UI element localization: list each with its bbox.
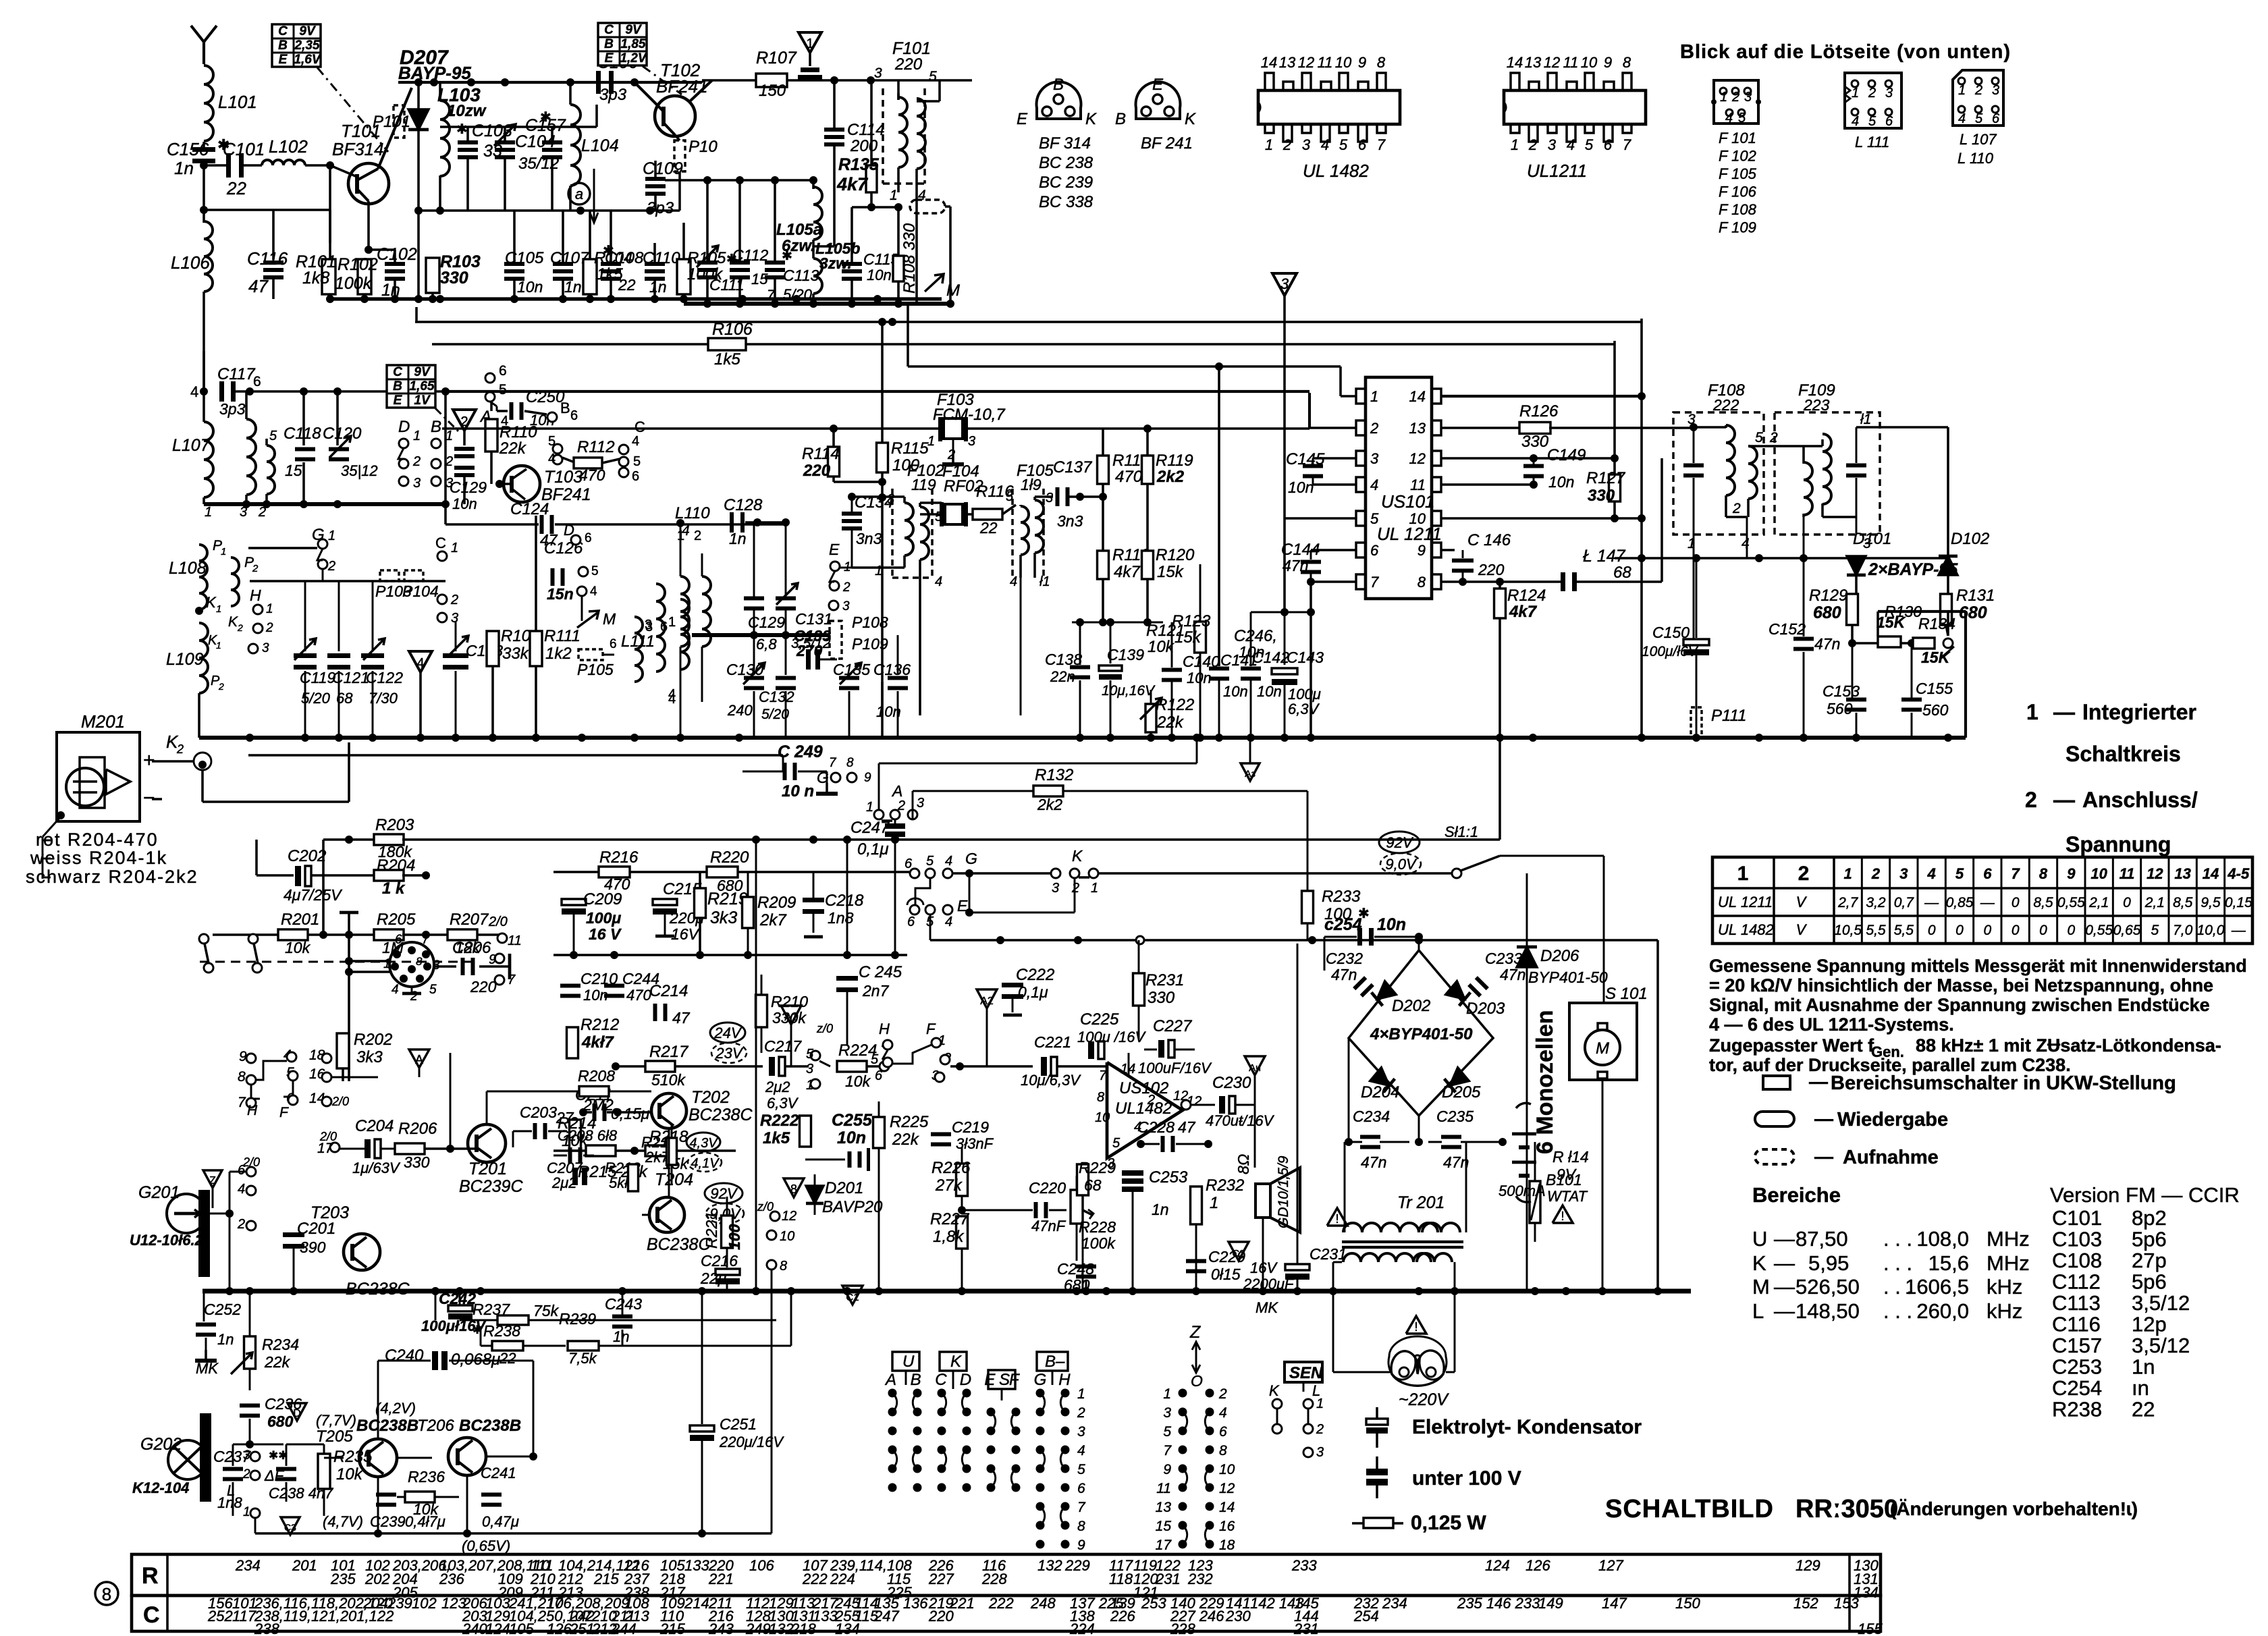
svg-text:7: 7: [238, 1095, 246, 1110]
svg-text:470uŧ/16V: 470uŧ/16V: [1206, 1112, 1275, 1129]
svg-text:4k7: 4k7: [836, 174, 869, 194]
svg-text:A: A: [415, 1053, 423, 1066]
wire pin13 R126: [1441, 427, 1521, 429]
voltage box T103: [387, 365, 435, 408]
svg-text:C232: C232: [1326, 950, 1363, 967]
left vertical from L106 down: [202, 351, 205, 391]
svg-text:C128: C128: [724, 496, 763, 514]
svg-text:—: —: [2053, 788, 2075, 812]
svg-text:100μ/ł6V: 100μ/ł6V: [1642, 644, 1699, 659]
svg-text:4: 4: [1852, 114, 1859, 129]
wire x667 up: [450, 1053, 451, 1149]
capacitor C210 10n: [570, 955, 571, 983]
svg-text:7/30: 7/30: [369, 690, 398, 707]
wire antenna to C156: [202, 142, 205, 149]
svg-text:10: 10: [1409, 510, 1426, 527]
svg-text:R229: R229: [1079, 1159, 1116, 1176]
svg-text:C138: C138: [1045, 651, 1082, 668]
svg-text:U: U: [1752, 1227, 1767, 1251]
svg-text:3n3: 3n3: [856, 530, 882, 547]
svg-text:E: E: [984, 1371, 996, 1389]
svg-text:C206: C206: [452, 939, 491, 957]
svg-text:239: 239: [387, 1595, 412, 1612]
resistor R229 68: [1077, 1164, 1089, 1195]
svg-text:6: 6: [875, 1068, 883, 1083]
svg-text:227: 227: [928, 1571, 954, 1587]
svg-text:2n7: 2n7: [862, 982, 890, 1000]
svg-text:C136: C136: [873, 661, 911, 678]
svg-text:35/12: 35/12: [518, 155, 559, 173]
svg-text:4 — 6 des UL 1211-Systems.: 4 — 6 des UL 1211-Systems.: [1709, 1014, 1954, 1035]
svg-text:6: 6: [1983, 865, 1992, 882]
svg-text:1: 1: [927, 434, 935, 449]
trim capacitor C157: [551, 127, 553, 143]
svg-text:4: 4: [190, 383, 198, 400]
svg-text:228: 228: [981, 1571, 1007, 1587]
wire from M201 plus: [152, 760, 194, 763]
svg-text:C233: C233: [1485, 950, 1522, 967]
svg-text:✱: ✱: [456, 122, 468, 137]
svg-text:R220: R220: [710, 848, 749, 867]
svg-text:C113: C113: [783, 267, 819, 284]
capacitor C112 15: [738, 180, 741, 263]
diode D206 BYP401-50: [1526, 873, 1528, 948]
capacitor C142 10n: [1250, 612, 1252, 666]
svg-text:240: 240: [462, 1620, 487, 1636]
svg-text:C112: C112: [732, 246, 768, 264]
svg-text:3: 3: [887, 492, 894, 507]
svg-text:R236: R236: [408, 1468, 445, 1485]
svg-text:4: 4: [1321, 136, 1329, 153]
svg-text:0,47μ: 0,47μ: [482, 1513, 519, 1530]
resistor R231 330: [1133, 973, 1145, 1006]
svg-text:7: 7: [1163, 1443, 1172, 1458]
svg-text:K: K: [1085, 110, 1097, 128]
svg-text:R234: R234: [262, 1336, 299, 1353]
svg-text:260,0: 260,0: [1916, 1299, 1969, 1323]
svg-text:3: 3: [1163, 1405, 1171, 1421]
svg-text:1: 1: [1844, 865, 1852, 882]
svg-text:16: 16: [1219, 1519, 1235, 1534]
svg-text:1: 1: [205, 505, 212, 520]
svg-text:10: 10: [1095, 1110, 1110, 1125]
svg-text:5p6: 5p6: [2132, 1228, 2167, 1251]
svg-text:1: 1: [451, 541, 458, 555]
svg-text:2: 2: [1370, 420, 1378, 437]
capacitor C229 0.15: [1186, 1259, 1206, 1263]
svg-text:1k8: 1k8: [302, 269, 329, 288]
svg-text:C253: C253: [2052, 1355, 2102, 1379]
svg-text:C246,: C246,: [1234, 627, 1277, 645]
svg-text:3: 3: [917, 796, 924, 811]
svg-text:6: 6: [395, 933, 402, 947]
svg-text:BC239C: BC239C: [459, 1177, 523, 1196]
svg-text:C113: C113: [2052, 1291, 2101, 1315]
connector G201: [167, 1194, 206, 1233]
svg-text:L106: L106: [171, 252, 210, 273]
svg-text:1,65: 1,65: [410, 379, 435, 393]
svg-text:0,1μ: 0,1μ: [857, 840, 889, 858]
resistor R218 15k: [645, 1145, 675, 1156]
heavy bus segment y941: [692, 633, 829, 637]
capacitor C244 470: [614, 955, 615, 983]
capacitor inside F108: [1693, 427, 1695, 463]
svg-text:22: 22: [499, 1350, 516, 1367]
capacitor inside F109: [1856, 427, 1858, 463]
capacitor C222 0.1u: [1012, 955, 1013, 983]
svg-text:148,50: 148,50: [1796, 1299, 1860, 1323]
svg-text:ın: ın: [2132, 1376, 2149, 1400]
svg-text:1: 1: [413, 429, 421, 443]
svg-text:2: 2: [1218, 1386, 1227, 1402]
svg-text:1: 1: [806, 1078, 813, 1093]
svg-text:10n: 10n: [1223, 683, 1248, 700]
wire pin8: [1441, 580, 1562, 583]
svg-text:10: 10: [1581, 54, 1598, 71]
svg-text:C227: C227: [1153, 1017, 1193, 1035]
transistor T103 BF241: [504, 466, 540, 502]
svg-text:229: 229: [1064, 1557, 1090, 1574]
svg-text:2: 2: [1732, 501, 1741, 516]
svg-text:ł1: ł1: [1039, 574, 1050, 589]
svg-text:MHz: MHz: [1987, 1227, 2030, 1251]
capacitor C211 0.15u inline: [593, 1103, 597, 1121]
resistor R237 75k: [435, 1291, 436, 1321]
svg-text:B: B: [1115, 110, 1126, 128]
wire x479: [322, 840, 325, 935]
resistor R216 470: [599, 867, 630, 877]
svg-text:a: a: [575, 186, 583, 202]
svg-text:15,6: 15,6: [1928, 1251, 1969, 1275]
svg-text:5p6: 5p6: [2132, 1270, 2167, 1294]
resistor R232 1: [1191, 1187, 1202, 1224]
svg-text:L109: L109: [166, 650, 204, 669]
svg-text:8: 8: [780, 1259, 787, 1274]
reference triangle C2: [1228, 1242, 1249, 1261]
capacitor C101: [204, 164, 227, 167]
capacitor C103: [466, 127, 469, 143]
svg-text:8: 8: [2039, 865, 2048, 882]
svg-text:2k2: 2k2: [1037, 796, 1062, 813]
resistor R111 1k2: [535, 516, 537, 630]
svg-text:2: 2: [265, 621, 273, 635]
svg-text:—: —: [2053, 700, 2075, 724]
svg-text:K: K: [206, 594, 217, 611]
svg-text:13: 13: [2174, 865, 2190, 882]
svg-text:5: 5: [269, 429, 277, 443]
svg-text:220: 220: [1478, 561, 1505, 578]
svg-text:215: 215: [659, 1620, 685, 1636]
svg-text:R112: R112: [577, 438, 615, 456]
resistor R215 22k: [586, 1145, 616, 1156]
svg-text:5: 5: [929, 69, 937, 84]
capacitor C245 2n7: [846, 955, 848, 975]
capacitor C102: [369, 248, 395, 251]
svg-text:680: 680: [717, 877, 743, 894]
svg-text:R209: R209: [757, 894, 796, 912]
capacitor C152 47n: [1803, 558, 1805, 636]
svg-text:2: 2: [1528, 136, 1537, 153]
svg-text:C234: C234: [1353, 1108, 1390, 1125]
wire C114 branch: [833, 80, 836, 129]
svg-text:R134: R134: [1918, 615, 1955, 632]
svg-text:15: 15: [285, 462, 302, 479]
svg-text:R108 330: R108 330: [900, 223, 919, 294]
switch matrix hooks: [892, 1393, 897, 1412]
svg-text:F: F: [1009, 1371, 1020, 1389]
leader line from voltage box to T101: [317, 67, 388, 152]
svg-text:6: 6: [1358, 136, 1367, 153]
svg-text:R120: R120: [1156, 546, 1195, 564]
svg-text:7,0: 7,0: [2173, 923, 2193, 938]
svg-text:243: 243: [708, 1620, 734, 1636]
svg-text:(4,2V): (4,2V): [375, 1400, 416, 1417]
svg-text:150: 150: [1675, 1595, 1700, 1612]
svg-text:BC238B: BC238B: [356, 1417, 418, 1435]
svg-text:1,2V: 1,2V: [620, 51, 647, 65]
wire pin7: [1311, 580, 1356, 583]
wire from triangle 3 down: [1283, 296, 1286, 611]
svg-text:1: 1: [1958, 83, 1966, 98]
wire F109 pin1 to D102: [1856, 426, 1948, 429]
SEN contact group: [1285, 1362, 1322, 1382]
svg-text:(4,7V): (4,7V): [323, 1513, 363, 1530]
svg-text:10μ,16V: 10μ,16V: [1102, 683, 1156, 699]
svg-text:254: 254: [1353, 1608, 1379, 1625]
svg-text:5: 5: [1163, 1424, 1171, 1440]
svg-text:12: 12: [2146, 865, 2163, 882]
svg-text:1,85: 1,85: [621, 37, 646, 51]
svg-text:C235: C235: [1436, 1108, 1474, 1125]
capacitor C235 47n: [1441, 1135, 1461, 1139]
svg-text:D203: D203: [1466, 1000, 1505, 1018]
svg-text:1: 1: [216, 603, 221, 615]
M switch arrow: [581, 596, 583, 621]
svg-text:149: 149: [1538, 1595, 1563, 1612]
svg-text:8: 8: [238, 1069, 246, 1085]
reference triangle A4: [1245, 1056, 1265, 1075]
svg-text:P10: P10: [688, 138, 718, 156]
svg-text:13: 13: [1279, 54, 1296, 71]
svg-text:L105a: L105a: [776, 221, 822, 239]
svg-text:8p2: 8p2: [2132, 1206, 2167, 1230]
circle a mark: [568, 183, 590, 204]
svg-text:C110: C110: [643, 249, 680, 267]
IC pinout UL1211 bottom view: [1504, 90, 1646, 124]
wire E to rail: [929, 915, 932, 940]
capacitor C141 10n: [1218, 366, 1220, 666]
svg-text:2,35: 2,35: [294, 38, 320, 53]
node T101 base: [326, 161, 334, 169]
svg-text:R ł14: R ł14: [1552, 1148, 1589, 1166]
svg-text:C 146: C 146: [1467, 531, 1511, 549]
svg-text:236: 236: [439, 1571, 464, 1587]
svg-text:5: 5: [429, 983, 437, 997]
transistor T201 BC239C: [468, 1124, 506, 1162]
svg-text:R126: R126: [1519, 402, 1559, 420]
svg-text:35|12: 35|12: [341, 462, 378, 479]
wire G down y1352: [969, 873, 971, 912]
svg-text:4: 4: [632, 434, 639, 449]
svg-text:Ł 147: Ł 147: [1583, 547, 1626, 566]
svg-text:C120: C120: [323, 425, 362, 443]
svg-text:c254: c254: [1324, 915, 1362, 934]
svg-text:8: 8: [416, 955, 423, 968]
svg-text:23V: 23V: [715, 1045, 743, 1062]
coil L104: [570, 105, 580, 186]
capacitor C217 2u2: [769, 1057, 775, 1076]
svg-text:1: 1: [221, 546, 226, 557]
svg-text:5,95: 5,95: [1808, 1251, 1849, 1275]
svg-text:247: 247: [873, 1608, 899, 1625]
svg-text:F 108: F 108: [1719, 201, 1757, 218]
svg-text:—: —: [1774, 1227, 1795, 1251]
svg-text:0,125 W: 0,125 W: [1411, 1512, 1486, 1534]
IC US101 UL1211 box: [1366, 377, 1432, 599]
resistor R209 2k7: [742, 897, 754, 928]
trim capacitor C122: [372, 581, 374, 651]
bridge rectifier 4xBYP401-50: [1349, 950, 1493, 1116]
svg-text:C229: C229: [1208, 1248, 1245, 1265]
svg-text:C101: C101: [223, 139, 265, 159]
capacitor C144 47n: [1311, 549, 1356, 551]
svg-text:9,0V: 9,0V: [1385, 856, 1417, 873]
wire C247 down: [894, 839, 896, 955]
legend Wiedergabe: [1755, 1112, 1794, 1126]
svg-text:R216: R216: [599, 848, 639, 867]
svg-text:R221: R221: [703, 1211, 720, 1249]
mains plug: [1390, 1340, 1444, 1371]
svg-text:U12-10ł6.2: U12-10ł6.2: [130, 1232, 204, 1249]
svg-text:C139: C139: [1107, 646, 1144, 663]
svg-text:V: V: [1796, 921, 1808, 938]
record capsule dashed: [910, 200, 945, 213]
svg-text:. . .: . . .: [1883, 1299, 1912, 1323]
svg-text:1k2: 1k2: [545, 645, 572, 663]
svg-text:✱: ✱: [782, 249, 792, 263]
svg-text:C243: C243: [605, 1295, 642, 1313]
wire bridge bottom to C234 C235: [1418, 1116, 1420, 1142]
svg-text:SEN: SEN: [1289, 1364, 1323, 1382]
svg-text:UL1482: UL1482: [1115, 1099, 1172, 1118]
svg-text:14: 14: [1507, 54, 1523, 71]
resistor R104 1k5: [583, 259, 597, 294]
svg-text:2M2: 2M2: [583, 1096, 614, 1114]
svg-text:Aч: Aч: [1249, 1062, 1261, 1074]
svg-text:E: E: [394, 393, 403, 408]
svg-text:92V: 92V: [710, 1185, 738, 1202]
wire pin10: [1441, 517, 1642, 520]
capacitor C206 220: [434, 965, 456, 968]
svg-text:G202: G202: [140, 1435, 182, 1454]
svg-text:4: 4: [1927, 865, 1936, 882]
svg-text:D201: D201: [825, 1179, 863, 1197]
capacitor C216 22u: [715, 1269, 740, 1275]
svg-text:E: E: [1017, 110, 1028, 128]
svg-text:BF 314: BF 314: [1039, 134, 1091, 153]
svg-text:3: 3: [1370, 450, 1379, 467]
svg-text:~220V: ~220V: [1399, 1390, 1449, 1409]
resistor R236 10k: [405, 1492, 435, 1502]
svg-text:F 109: F 109: [1719, 219, 1756, 236]
svg-text:3: 3: [1046, 491, 1053, 506]
contacts G row: [925, 869, 935, 878]
svg-text:WTAT: WTAT: [1547, 1188, 1588, 1205]
svg-text:C: C: [435, 535, 446, 551]
svg-text:C150: C150: [1652, 624, 1690, 641]
svg-text:3: 3: [874, 65, 882, 81]
svg-text:10n: 10n: [452, 495, 477, 512]
svg-text:—: —: [1774, 1275, 1795, 1299]
svg-text:1n: 1n: [564, 278, 582, 296]
svg-text:5: 5: [1585, 136, 1594, 153]
svg-text:234: 234: [235, 1557, 261, 1574]
opamp US102 UL1482: [1107, 1062, 1183, 1158]
svg-text:0: 0: [2012, 895, 2020, 910]
svg-text:16 V: 16 V: [589, 925, 622, 943]
svg-text:L: L: [227, 1482, 235, 1499]
svg-text:R102: R102: [337, 255, 378, 274]
wire pin3 C145: [1313, 457, 1356, 460]
DIN connector socket: [389, 942, 434, 987]
svg-text:C219: C219: [952, 1118, 989, 1136]
svg-text:2: 2: [1282, 136, 1291, 153]
winding L108b: [231, 557, 239, 606]
svg-text:100k: 100k: [1081, 1234, 1116, 1252]
svg-text:F: F: [926, 1020, 936, 1037]
svg-text:D202: D202: [1392, 997, 1430, 1015]
svg-text:z/0: z/0: [816, 1022, 833, 1035]
svg-text:3k3: 3k3: [710, 908, 737, 927]
svg-text:P105: P105: [577, 661, 614, 678]
wire y312: [418, 209, 680, 212]
svg-text:24V: 24V: [713, 1025, 742, 1041]
svg-text:220: 220: [470, 978, 497, 996]
svg-text:1: 1: [243, 1505, 250, 1519]
svg-text:13: 13: [1409, 420, 1426, 437]
svg-text:. . .: . . .: [1883, 1251, 1912, 1275]
svg-text:6: 6: [1219, 1424, 1227, 1440]
resistor R106 1k5 inline: [708, 338, 746, 350]
svg-text:2: 2: [1316, 1422, 1324, 1437]
transistor T202 BC238C: [651, 1093, 686, 1128]
svg-text:150: 150: [759, 82, 786, 100]
svg-text:3: 3: [806, 1062, 813, 1076]
svg-text:4: 4: [935, 574, 942, 589]
pot R234 22k: [244, 1336, 256, 1369]
resistor R208 2M2: [579, 1087, 609, 1097]
tuner bottom bus right part: [942, 299, 950, 304]
svg-text:8: 8: [1219, 1443, 1227, 1458]
svg-text:3,5/12: 3,5/12: [2132, 1334, 2190, 1357]
svg-text:1n: 1n: [649, 278, 667, 296]
svg-text:E: E: [829, 541, 840, 558]
svg-text:6: 6: [660, 620, 668, 634]
svg-text:Spannung: Spannung: [2065, 832, 2171, 856]
svg-text:27k: 27k: [935, 1176, 963, 1195]
trim capacitor C123: [455, 621, 457, 651]
capacitor C248 680: [1076, 1265, 1096, 1269]
resistor R226 27k: [956, 1164, 968, 1196]
svg-text:9: 9: [1604, 54, 1612, 71]
reference triangle 3: [1272, 273, 1297, 296]
svg-text:470: 470: [626, 987, 651, 1004]
svg-text:220: 220: [894, 55, 923, 74]
svg-text:M201: M201: [81, 711, 125, 732]
resistor R109 33k: [492, 504, 493, 630]
svg-text:22k: 22k: [499, 439, 527, 458]
svg-text:470: 470: [1115, 468, 1143, 486]
